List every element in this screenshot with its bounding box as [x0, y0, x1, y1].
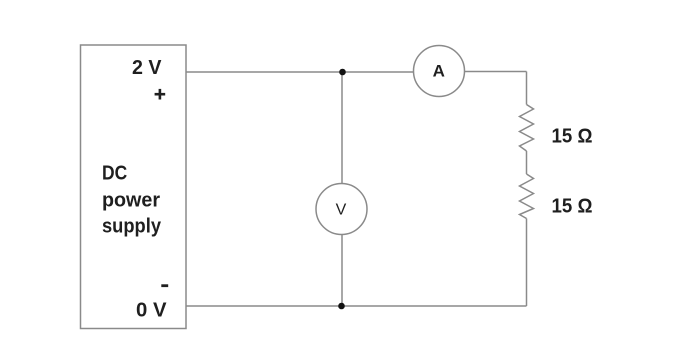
resistor R1 15 ohm	[520, 105, 534, 152]
wire voltmeter bottom branch	[341, 235, 343, 307]
wire bottom	[186, 305, 527, 307]
wire between resistors	[526, 151, 528, 174]
node bottom junction	[338, 303, 345, 310]
svg-text:A: A	[433, 62, 445, 81]
svg-text:2 V: 2 V	[132, 57, 162, 79]
wire top: ammeter to right corner	[465, 71, 527, 73]
node top junction	[339, 69, 346, 76]
ammeter U1 circle	[414, 46, 465, 97]
svg-text:15 Ω: 15 Ω	[552, 196, 593, 218]
wire right vertical upper	[526, 72, 528, 105]
DC power supply box	[81, 45, 187, 329]
wire right vertical lower	[526, 219, 528, 307]
svg-text:power: power	[102, 190, 160, 212]
svg-text:DC: DC	[102, 163, 127, 185]
svg-text:0 V: 0 V	[136, 299, 167, 321]
svg-text:supply: supply	[102, 216, 162, 238]
label - terminal	[161, 284, 168, 287]
label + terminal	[155, 89, 166, 100]
svg-text:15 Ω: 15 Ω	[552, 126, 593, 148]
wire top: box to ammeter	[186, 71, 414, 73]
resistor R2 15 ohm	[520, 174, 534, 219]
wire voltmeter top branch	[341, 72, 343, 184]
voltmeter U2 circle	[316, 184, 367, 235]
svg-text:V: V	[336, 201, 347, 218]
